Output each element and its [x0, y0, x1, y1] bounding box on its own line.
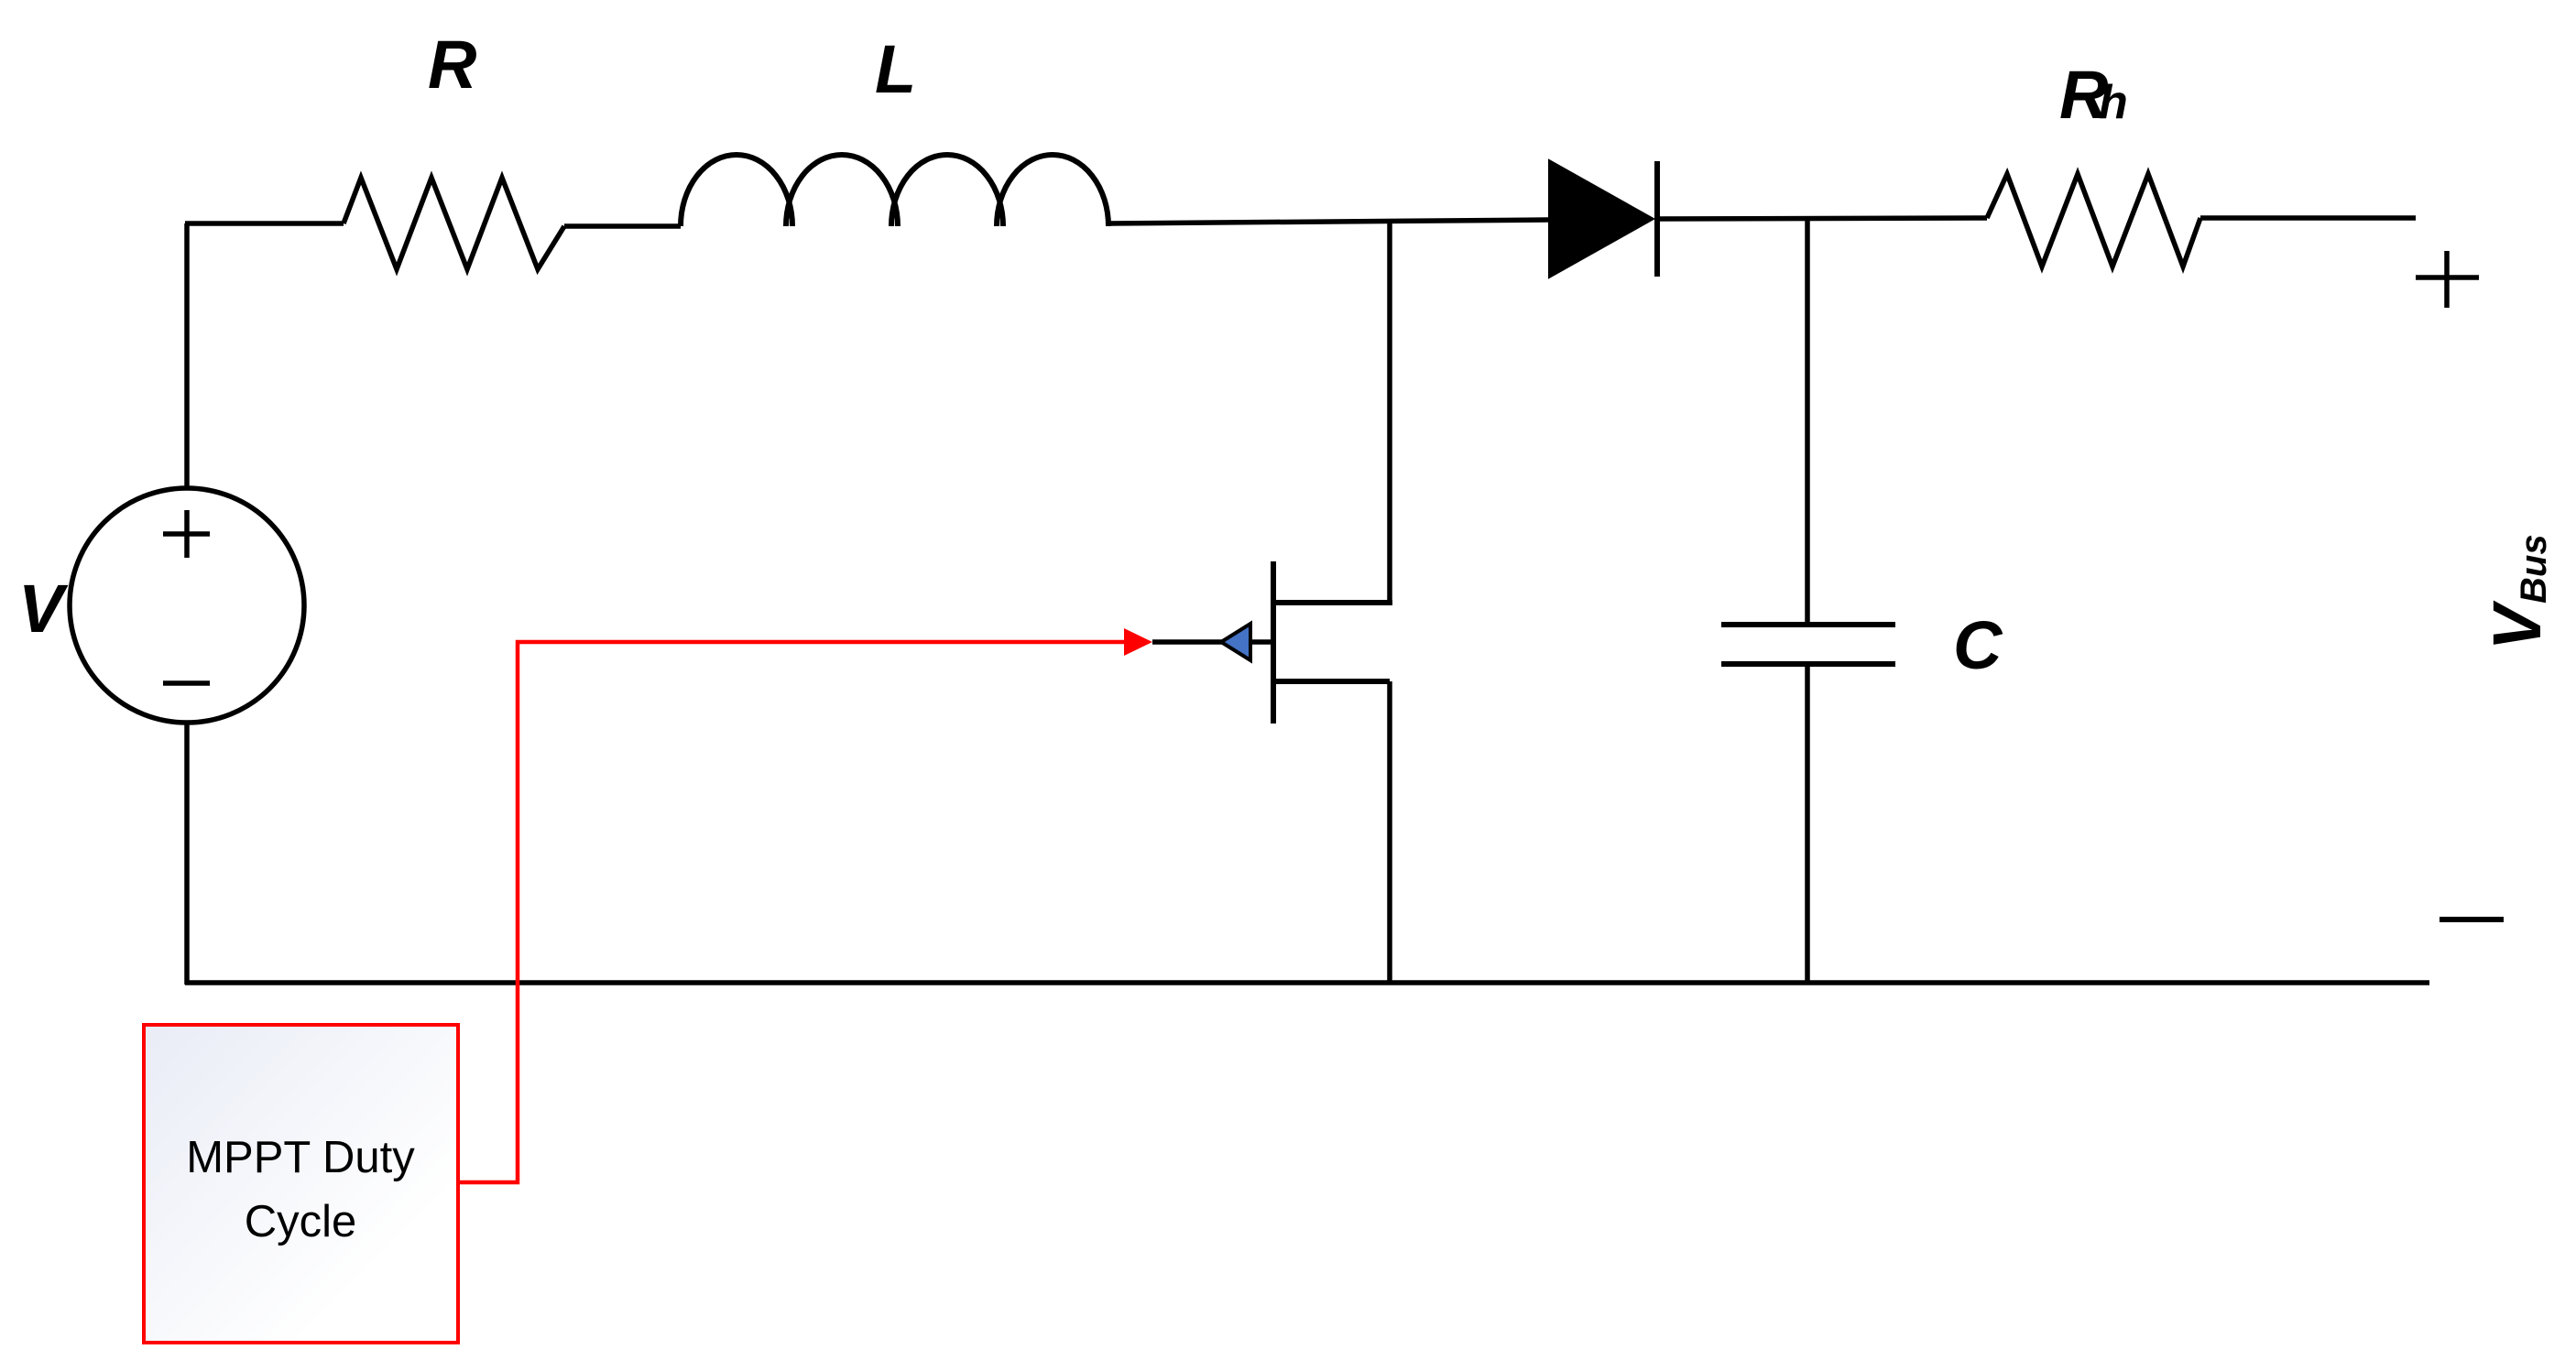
wire between R and L [564, 223, 681, 229]
wire from source bottom to bottom rail [184, 723, 190, 985]
resistor Rh [1987, 174, 2200, 267]
label Rh [2059, 57, 2128, 133]
svg-text:V: V [18, 571, 69, 647]
capacitor C top wire [1805, 218, 1810, 625]
svg-text:h: h [2099, 76, 2128, 129]
red control wire from MPPT block to gate [458, 628, 1152, 1182]
capacitor C [1721, 625, 1895, 664]
wire from L to diode anode [1108, 220, 1549, 223]
svg-text:C: C [1953, 607, 2003, 683]
label VBus [2479, 534, 2555, 650]
diode D [1549, 160, 1657, 277]
transistor Q1 (n-MOSFET) [1152, 561, 1392, 724]
minus terminal of VBus [2440, 917, 2504, 922]
wire top rail left segment [185, 221, 344, 226]
svg-text:Bus: Bus [2514, 534, 2554, 604]
svg-text:V: V [2479, 600, 2555, 650]
wire left vertical from source to top rail [184, 223, 190, 488]
svg-text:R: R [428, 27, 476, 103]
transistor Q1 source wire [1387, 681, 1392, 983]
transistor Q1 drain wire [1387, 220, 1392, 603]
plus terminal of VBus [2416, 251, 2479, 308]
svg-text:L: L [875, 31, 916, 107]
wire from diode cathode to Rh [1657, 218, 1987, 219]
svg-text:MPPT Duty: MPPT Duty [186, 1133, 415, 1182]
bottom rail wire [185, 980, 2429, 985]
MPPT Duty Cycle block [144, 1025, 458, 1343]
wire from Rh to + terminal [2200, 215, 2416, 221]
resistor R [344, 178, 564, 269]
capacitor C bottom wire [1805, 664, 1810, 983]
voltage source V [70, 488, 304, 723]
inductor L [681, 155, 1108, 226]
svg-text:Cycle: Cycle [245, 1197, 357, 1246]
